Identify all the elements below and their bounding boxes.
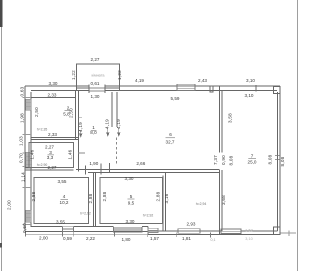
svg-text:8,08: 8,08	[229, 155, 234, 165]
svg-text:3,30: 3,30	[125, 176, 134, 181]
svg-text:2,27: 2,27	[45, 145, 54, 150]
window top (hatched)	[177, 84, 195, 90]
svg-text:3,16: 3,16	[164, 193, 169, 203]
svg-text:2,33: 2,33	[48, 93, 57, 98]
wall room3 bottom	[25, 168, 74, 171]
svg-text:2,33: 2,33	[48, 132, 57, 137]
svg-text:2,93: 2,93	[187, 222, 196, 227]
porch door threshold	[89, 88, 105, 91]
svg-text:4,19: 4,19	[105, 119, 110, 129]
svg-text:6: 6	[169, 132, 172, 137]
svg-text:1,03: 1,03	[19, 136, 24, 146]
svg-text:1,46: 1,46	[30, 149, 35, 159]
wire right wall outer	[279, 86, 281, 235]
svg-text:1,98: 1,98	[20, 113, 25, 123]
tick top wall x256	[255, 85, 257, 92]
room4 dim box	[34, 178, 89, 224]
door hall bottom (hatched)	[178, 229, 200, 234]
svg-text:1,14: 1,14	[21, 172, 26, 182]
wall room2 bottom	[31, 138, 79, 140]
svg-text:0,70: 0,70	[19, 153, 24, 163]
porch box	[77, 64, 120, 88]
svg-text:3,58: 3,58	[228, 113, 233, 123]
arrow 4,19 wallA	[80, 130, 82, 137]
chimney block mid-left	[26, 152, 32, 168]
wall step bottom	[147, 227, 149, 235]
window bottom room4 (hatched)	[63, 227, 74, 232]
svg-text:h=2,92: h=2,92	[80, 212, 91, 216]
bracket right wall dim	[275, 156, 280, 160]
wall room2 top	[31, 97, 76, 99]
wall room5 right	[163, 173, 166, 232]
svg-text:h=2,92: h=2,92	[143, 214, 154, 218]
scan artifact left bar	[1, 0, 2, 271]
svg-text:4,19: 4,19	[116, 119, 121, 129]
tick box top wall	[210, 86, 213, 92]
svg-text:2,88: 2,88	[31, 191, 36, 201]
wall middle horizontal	[76, 170, 220, 173]
svg-text:2,27: 2,27	[91, 57, 100, 62]
arrows 4,19 room1	[107, 128, 120, 136]
svg-text:2,43: 2,43	[198, 78, 207, 83]
wall C room6-room7 lower	[220, 170, 222, 235]
svg-text:1,22: 1,22	[117, 70, 122, 80]
svg-text:1,80: 1,80	[122, 237, 131, 242]
svg-text:4: 4	[63, 194, 66, 199]
svg-text:3,55: 3,55	[56, 219, 65, 224]
wire left wall inner	[30, 92, 32, 227]
wire top wall outer	[25, 85, 280, 87]
wire left wall outer	[24, 86, 26, 232]
pier top-right	[274, 87, 281, 94]
svg-text:1,22: 1,22	[71, 70, 76, 80]
svg-text:3,30: 3,30	[49, 81, 58, 86]
svg-text:0,59: 0,59	[63, 236, 72, 241]
svg-text:4,19: 4,19	[135, 78, 144, 83]
svg-text:3,55: 3,55	[58, 179, 67, 184]
svg-text:2,88: 2,88	[88, 193, 93, 203]
wire top wall inner	[31, 90, 277, 92]
room3 dim box	[29, 143, 74, 168]
svg-text:0,60: 0,60	[22, 223, 27, 233]
svg-text:1,52: 1,52	[245, 229, 252, 233]
dim ticks bottom	[26, 232, 211, 238]
svg-text:3,10: 3,10	[245, 93, 254, 98]
svg-text:0,90: 0,90	[221, 155, 226, 165]
svg-text:1,90: 1,90	[89, 161, 98, 166]
svg-text:2,50: 2,50	[69, 108, 74, 118]
wire right wall inner	[277, 92, 279, 231]
svg-text:8,0: 8,0	[90, 130, 97, 135]
wall room4-room5	[94, 173, 96, 227]
svg-text:0,1: 0,1	[211, 238, 216, 242]
svg-text:3,10: 3,10	[245, 237, 252, 241]
svg-text:1,57: 1,57	[150, 236, 159, 241]
vertical labels	[7, 70, 286, 233]
wire bottom wall right inner	[148, 230, 278, 232]
chimney block upper-left	[26, 99, 32, 110]
svg-text:7: 7	[251, 153, 254, 158]
chimney block lower-left	[26, 210, 32, 222]
window bottom step (hatched)	[148, 228, 158, 232]
svg-text:8,08: 8,08	[280, 156, 285, 166]
svg-text:кімната: кімната	[91, 74, 105, 78]
scan artifact left small mark	[0, 243, 2, 248]
svg-text:0,61: 0,61	[91, 81, 100, 86]
porch jamb ticks	[77, 85, 120, 94]
svg-text:3,30: 3,30	[126, 219, 135, 224]
svg-text:3,68: 3,68	[221, 195, 226, 205]
svg-text:3,3: 3,3	[47, 155, 54, 160]
fraction bars room labels	[48, 111, 257, 200]
wire bottom wall left outer	[25, 231, 148, 233]
svg-text:1,46: 1,46	[68, 149, 73, 159]
pier bottom-right	[274, 227, 281, 235]
scan artifact faint right line	[297, 0, 298, 271]
room3 hall jamb line	[78, 117, 85, 153]
dim line bottom-right extension	[280, 231, 296, 237]
svg-text:25,0: 25,0	[248, 159, 257, 164]
svg-text:2,66: 2,66	[136, 161, 145, 166]
wall B room1-room6	[112, 92, 117, 127]
svg-text:1,81: 1,81	[182, 236, 191, 241]
svg-text:10,2: 10,2	[60, 200, 69, 205]
svg-text:4,19: 4,19	[78, 122, 83, 132]
dim line bottom-left	[26, 233, 149, 235]
wall hall vertical A	[76, 91, 79, 172]
door jamb ticks middle wall	[86, 163, 110, 175]
svg-text:32,7: 32,7	[166, 140, 175, 145]
svg-text:5: 5	[130, 194, 133, 199]
svg-text:2,27: 2,27	[48, 165, 57, 170]
svg-text:h=2,35: h=2,35	[37, 128, 48, 132]
wire bottom wall left inner	[31, 226, 148, 228]
svg-text:0,63: 0,63	[20, 86, 25, 96]
svg-text:h=2,94: h=2,94	[196, 202, 207, 206]
svg-text:2,88: 2,88	[102, 191, 107, 201]
svg-text:1,30: 1,30	[91, 94, 100, 99]
wall C room6-room7 upper	[220, 86, 222, 153]
window bottom room7 (hatched)	[221, 229, 241, 234]
svg-text:3,10: 3,10	[246, 78, 255, 83]
svg-text:2,22: 2,22	[86, 236, 95, 241]
svg-text:7,37: 7,37	[213, 155, 218, 165]
svg-text:9,5: 9,5	[128, 201, 135, 206]
window bottom room5 (hatched)	[114, 227, 143, 232]
room5 dim box	[100, 178, 163, 224]
svg-text:2,00: 2,00	[7, 200, 12, 210]
svg-text:2,00: 2,00	[39, 235, 48, 240]
svg-text:8,08: 8,08	[268, 154, 273, 164]
dashed wall continuation	[116, 138, 118, 164]
svg-text:2,88: 2,88	[156, 191, 161, 201]
svg-text:5,59: 5,59	[171, 96, 180, 101]
ticks left wall	[23, 98, 32, 225]
wire bottom wall right outer	[148, 234, 280, 236]
svg-text:2,50: 2,50	[34, 107, 39, 117]
svg-text:h=2,90: h=2,90	[37, 163, 48, 167]
